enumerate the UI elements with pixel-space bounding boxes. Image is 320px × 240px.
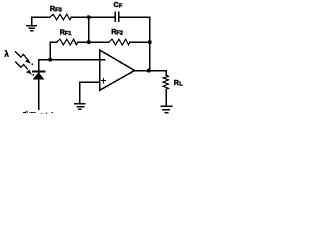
wire RF2 to right vertical — [130, 41, 150, 43]
svg-text:L: L — [179, 81, 183, 87]
op-amp U1 — [100, 50, 135, 90]
ground G2 (non-inverting input) — [75, 82, 85, 109]
svg-text:F3: F3 — [55, 7, 63, 13]
wire output corner down to RL — [165, 71, 167, 75]
svg-text:F2: F2 — [116, 31, 123, 37]
resistor RL — [163, 75, 168, 89]
wire ground G1 to resistor RF3 — [32, 16, 50, 18]
svg-text:F1: F1 — [65, 31, 73, 37]
wire vertical node A down to RF1/RF2 row — [88, 17, 90, 42]
wire right vertical (feedback to output) — [149, 17, 151, 70]
svg-text:F: F — [119, 3, 123, 9]
wire inverting input row — [39, 59, 100, 61]
resistor RF3 — [50, 14, 72, 20]
label RL — [174, 78, 184, 88]
light arrow 1 — [15, 51, 33, 65]
node junction dot D (50,59.5) — [48, 58, 52, 62]
wire RF3 to capacitor CF — [71, 16, 114, 18]
wire CF to right corner — [120, 16, 150, 18]
op-amp minus pin mark — [101, 59, 105, 61]
wire ground G2 to non-inverting input — [80, 81, 100, 83]
node junction dot A (88.5,17) — [87, 15, 91, 19]
node junction dot E (148.8,70.5) — [147, 69, 151, 73]
wire RF1 to RF2 — [78, 41, 109, 43]
wire RF1 left leg — [50, 42, 56, 60]
label CF — [114, 0, 123, 9]
op-amp plus pin mark — [102, 79, 106, 83]
wire RL to ground G3 — [165, 89, 167, 106]
ground G1 (top left) — [27, 17, 36, 31]
photodiode D1 — [33, 60, 45, 109]
capacitor CF plates — [114, 12, 116, 21]
label RF1 — [60, 28, 73, 38]
resistor RF2 — [109, 39, 130, 45]
node junction dot B (88.5,42) — [87, 40, 91, 44]
label RF2 — [111, 27, 123, 36]
node junction dot C (149.5,42) — [148, 40, 152, 44]
resistor RF1 — [57, 39, 78, 45]
light arrow 2 — [15, 61, 34, 75]
wire op-amp output — [135, 70, 167, 72]
ground G3 (below RL) — [161, 106, 172, 112]
tiny marks under photodiode — [23, 111, 53, 114]
svg-text:λ: λ — [4, 49, 9, 58]
label RF3 — [50, 4, 63, 14]
